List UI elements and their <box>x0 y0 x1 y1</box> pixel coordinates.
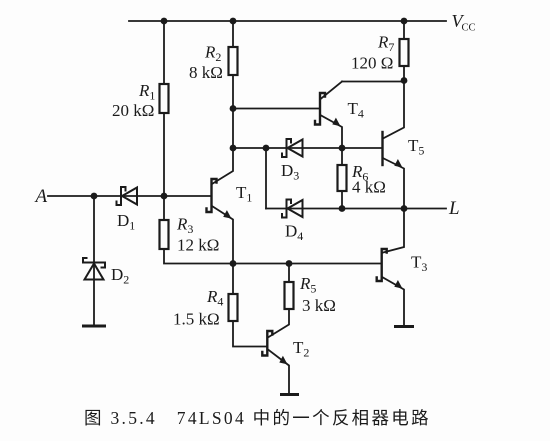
svg-text:A: A <box>34 186 48 207</box>
svg-text:1.5 kΩ: 1.5 kΩ <box>173 310 220 329</box>
svg-text:L: L <box>448 198 460 219</box>
svg-text:3 kΩ: 3 kΩ <box>302 296 336 315</box>
svg-text:4 kΩ: 4 kΩ <box>352 178 386 197</box>
svg-text:8 kΩ: 8 kΩ <box>189 63 223 82</box>
svg-text:120 Ω: 120 Ω <box>351 54 393 73</box>
svg-text:图 3.5.4 74LS04 中的一个反相器电路: 图 3.5.4 74LS04 中的一个反相器电路 <box>84 408 431 428</box>
svg-text:20 kΩ: 20 kΩ <box>112 101 154 120</box>
svg-text:12 kΩ: 12 kΩ <box>177 236 219 255</box>
svg-text:CC: CC <box>462 23 476 34</box>
